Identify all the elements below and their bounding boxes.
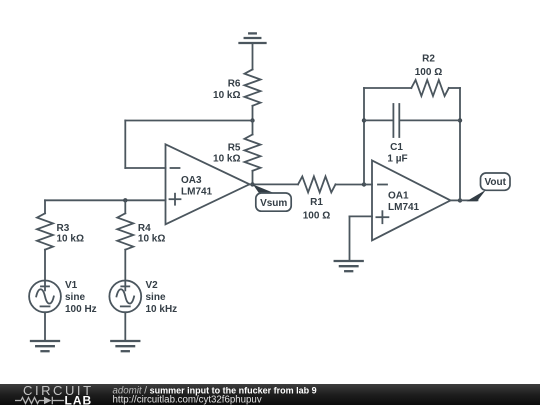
label R4 value <box>138 223 165 245</box>
footer title text <box>113 385 317 396</box>
label V1 value <box>65 280 97 315</box>
op-amp OA3 triangle <box>166 144 250 224</box>
op-amp OA1 triangle <box>372 160 451 240</box>
svg-text:10 kΩ: 10 kΩ <box>138 234 165 245</box>
wire ground to R6 top <box>252 43 254 69</box>
svg-text:100 Hz: 100 Hz <box>65 304 97 315</box>
wire R4 to V2 <box>124 250 126 281</box>
svg-text:1 µF: 1 µF <box>387 153 407 164</box>
junction node C1 right <box>458 118 462 122</box>
svg-text:R3: R3 <box>57 223 70 234</box>
junction node R4 top <box>123 198 127 202</box>
label R1 value <box>303 197 330 222</box>
wire OA3 plus input row <box>45 199 166 201</box>
wire V2 to ground <box>124 312 126 341</box>
wire OA1 output to Vout flag <box>460 199 478 201</box>
capacitor C1 plates <box>393 104 399 137</box>
wire right feedback vertical <box>459 88 461 200</box>
wire R2 right <box>449 87 460 89</box>
ground below V2 <box>111 341 139 351</box>
wire R5 bottom to output node <box>252 171 254 185</box>
svg-text:10 kHz: 10 kHz <box>146 304 178 315</box>
resistor R6 body <box>245 69 261 105</box>
label R6 value <box>213 79 241 102</box>
wire OA1 output <box>451 199 461 201</box>
wire feedback left vertical <box>124 121 126 169</box>
resistor R3 body <box>37 213 53 249</box>
resistor R4 body <box>117 213 133 249</box>
svg-text:Vout: Vout <box>484 177 506 188</box>
svg-text:R6: R6 <box>228 79 241 90</box>
wire feedback to OA3 inverting input <box>125 167 165 169</box>
wire R3 to V1 <box>44 250 46 281</box>
label C1 value <box>387 142 407 164</box>
svg-text:LM741: LM741 <box>388 202 420 213</box>
wire R1 right to junction <box>336 184 365 186</box>
wire OA3 apex to node <box>250 183 253 185</box>
wire R4 top <box>124 200 126 213</box>
svg-text:100 Ω: 100 Ω <box>303 211 330 222</box>
wire feedback top horizontal <box>125 120 252 122</box>
svg-text:OA1: OA1 <box>388 190 409 201</box>
label R5 value <box>213 143 241 165</box>
label R2 value <box>415 54 442 79</box>
svg-text:R4: R4 <box>138 223 151 234</box>
label OA1 designator <box>388 190 420 213</box>
junction node between R6 and R5 <box>250 118 254 122</box>
svg-text:http://circuitlab.com/cyt32f6p: http://circuitlab.com/cyt32f6phupuv <box>113 395 262 405</box>
wire junction to OA1 minus input <box>364 184 372 186</box>
svg-text:R1: R1 <box>310 197 323 208</box>
ground top (earth ground, flipped up) <box>240 33 266 43</box>
svg-text:sine: sine <box>65 292 85 303</box>
svg-text:100 Ω: 100 Ω <box>415 67 442 78</box>
svg-text:R2: R2 <box>422 54 435 65</box>
resistor R5 body <box>245 135 261 171</box>
svg-text:10 kΩ: 10 kΩ <box>57 234 84 245</box>
ground below OA1 <box>335 261 363 271</box>
wire R3 top <box>44 200 46 213</box>
wire R2 left <box>364 87 411 89</box>
svg-text:10 kΩ: 10 kΩ <box>213 154 240 165</box>
svg-text:V2: V2 <box>146 280 159 291</box>
svg-text:C1: C1 <box>390 142 403 153</box>
CircuitLab logo symbol (resistor + diode) <box>15 397 64 405</box>
wire node to R1 left <box>253 183 299 185</box>
resistor R2 body <box>411 80 449 96</box>
svg-text:LAB: LAB <box>65 394 93 405</box>
label R3 value <box>57 223 84 245</box>
svg-text:10 kΩ: 10 kΩ <box>213 90 240 101</box>
svg-text:R5: R5 <box>228 143 241 154</box>
node OA3 output junction <box>250 182 254 186</box>
footer url text <box>113 395 262 405</box>
wire C1 right <box>400 119 460 121</box>
svg-text:V1: V1 <box>65 280 78 291</box>
CircuitLab logo LAB text <box>65 394 93 405</box>
voltage source V1 <box>29 281 61 313</box>
junction node C1 left <box>362 118 366 122</box>
wire left feedback vertical <box>363 88 365 185</box>
wire R5 top <box>252 121 254 135</box>
svg-text:LM741: LM741 <box>181 186 213 197</box>
wire OA1 plus to ground <box>349 216 351 261</box>
label V2 value <box>146 280 178 315</box>
wire OA1 plus input <box>350 215 373 217</box>
ground below V1 <box>31 341 59 351</box>
voltage source V2 <box>109 281 141 313</box>
footer bar <box>0 384 540 405</box>
svg-text:sine: sine <box>146 292 166 303</box>
wire C1 left <box>364 119 393 121</box>
resistor R1 body <box>298 176 336 192</box>
wire V1 to ground <box>44 312 46 341</box>
node flag Vsum <box>253 185 291 212</box>
node OA1 output junction <box>458 198 462 202</box>
svg-text:Vsum: Vsum <box>260 198 287 209</box>
label OA3 designator <box>181 175 213 198</box>
CircuitLab logo wordmark <box>23 383 94 398</box>
svg-text:OA3: OA3 <box>181 175 202 186</box>
node flag Vout <box>467 173 511 201</box>
junction node OA1 inverting input <box>362 182 366 186</box>
wire R6 bottom to junction <box>252 106 254 121</box>
